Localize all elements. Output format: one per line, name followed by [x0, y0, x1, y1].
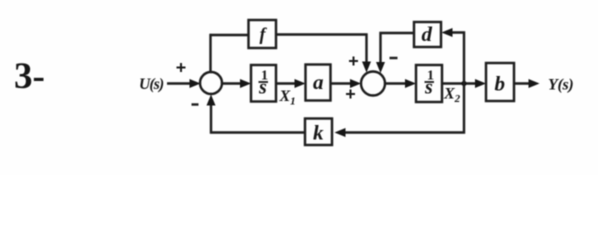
fraction bar of integrator X2 [425, 81, 435, 83]
wire: integrator X1 to block a [276, 79, 306, 88]
sign + below a arrow at sum2 [346, 90, 355, 99]
summer U1 (first summing junction) [200, 72, 222, 94]
svg-text:a: a [313, 70, 324, 94]
wire: sum2 to integrator 1/s (X2) [385, 79, 416, 88]
sign + left of f arrow at sum2 [349, 57, 358, 66]
feedback block k [305, 119, 332, 146]
feedback block f [249, 20, 277, 48]
svg-text:b: b [495, 72, 506, 96]
node X2 junction dot [461, 81, 466, 86]
svg-text:X1: X1 [279, 88, 296, 108]
gain block a [306, 65, 331, 101]
wire: from node X2 up and left into block d [442, 28, 465, 84]
svg-text:s: s [258, 77, 267, 99]
wire: U(s) input arrow to sum1 [167, 79, 201, 88]
wire: block a to sum2 [331, 79, 362, 88]
wire: block b to Y(s) output arrow [514, 79, 540, 88]
wire: sum1 top tap up to f line [209, 34, 211, 73]
svg-text:k: k [313, 121, 324, 145]
wire: sum1 to integrator 1/s (X1) [222, 79, 251, 88]
summer U2 (second summing junction) [361, 72, 385, 96]
wire: d output left then down into sum2 (-) [376, 33, 414, 73]
wire: from node X2 down and left into block k [335, 84, 465, 138]
fraction bar of integrator X1 [259, 81, 269, 83]
wire: integrator X2 to block b through node X2 [442, 79, 486, 88]
svg-text:s: s [424, 77, 433, 99]
svg-text:f: f [260, 24, 268, 44]
wire: horizontal into block f [210, 34, 249, 36]
sign + above input arrow at sum1 [177, 63, 186, 72]
sign - right of d arrow at sum2 [390, 57, 398, 59]
gain block b [486, 63, 514, 101]
svg-text:Y(s): Y(s) [548, 77, 573, 94]
svg-text:U(s): U(s) [139, 76, 164, 93]
svg-text:X2: X2 [443, 86, 461, 106]
wire: f output right then down into sum2 (+) [276, 35, 371, 73]
svg-text:d: d [422, 22, 433, 46]
svg-text:3-: 3- [14, 56, 45, 97]
wire: k output left then up into sum1 (-) [207, 95, 306, 133]
integrator block 1/s (state X2) [416, 65, 442, 102]
feedback block d [414, 22, 441, 47]
integrator block 1/s (state X1) [251, 65, 276, 102]
sign - below sum1 for k feedback [192, 103, 199, 105]
